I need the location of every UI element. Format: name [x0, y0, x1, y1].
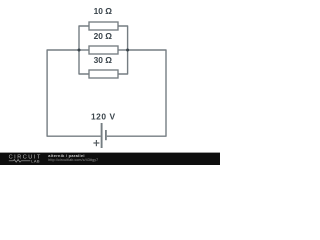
wire: left loop (node A to battery +) — [47, 50, 101, 136]
svg-text:10 Ω: 10 Ω — [94, 6, 113, 16]
wire: right parallel rail — [118, 26, 128, 74]
svg-text:120 V: 120 V — [91, 111, 116, 121]
wire: right loop (node B to battery -) — [107, 50, 166, 136]
battery V1 (120 V) — [91, 111, 116, 148]
resistor R1 (10 ohm) — [89, 6, 118, 30]
node B (right junction dot) — [126, 49, 129, 52]
svg-text:20 Ω: 20 Ω — [94, 31, 113, 41]
resistor R2 (20 ohm) — [89, 31, 118, 54]
node A (left junction dot) — [78, 49, 81, 52]
svg-text:http://circuitlab.com/c/43ttgy: http://circuitlab.com/c/43ttgy7 — [48, 158, 98, 162]
svg-text:30 Ω: 30 Ω — [94, 55, 113, 65]
CircuitLab logo — [9, 155, 42, 164]
footer watermark bar — [0, 153, 220, 165]
battery + polarity mark — [93, 140, 99, 146]
wire: left parallel rail — [79, 26, 89, 74]
resistor R3 (30 ohm) — [89, 55, 118, 78]
wire: R2 right stub — [118, 49, 128, 51]
wire: R2 left stub — [79, 49, 89, 51]
svg-text:LAB: LAB — [31, 158, 40, 163]
